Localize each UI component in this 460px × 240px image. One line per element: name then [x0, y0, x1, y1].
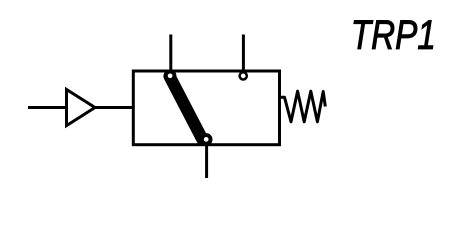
wire: bottom pin — [205, 145, 208, 178]
actuator triangle (coil driver) — [67, 90, 96, 126]
relay body outline TRP1 — [133, 71, 279, 145]
pivot hole (bottom end) — [204, 137, 209, 142]
open contact terminal circle — [240, 72, 247, 79]
label TRP1 — [354, 20, 433, 48]
wire: top-left pin — [169, 35, 172, 77]
switch arm pad (top pivot) — [164, 70, 177, 83]
spring — [281, 91, 325, 122]
switch arm (movable contact bar) — [170, 76, 203, 139]
switch arm pad (bottom end) — [200, 133, 213, 146]
pivot hole (top, common) — [168, 73, 173, 78]
wire: input lead — [28, 106, 65, 109]
wire: triangle output to body — [95, 106, 133, 109]
wire: top-right pin — [242, 35, 245, 72]
